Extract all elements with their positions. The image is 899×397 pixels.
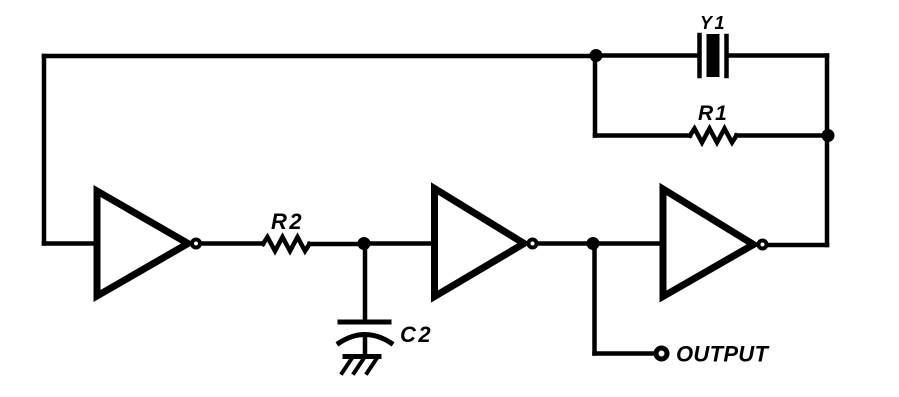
wire: left vertical rail — [42, 56, 47, 244]
wire: node C down to C2 — [363, 244, 368, 322]
wire: right vertical rail — [825, 56, 830, 246]
capacitor C2 top plate — [340, 320, 389, 325]
svg-text:R1: R1 — [698, 102, 729, 125]
output terminal — [656, 348, 667, 359]
inverter U3 output bubble — [759, 241, 767, 249]
wire: node D down to output — [592, 244, 597, 354]
wire: R1 left lead — [595, 133, 690, 138]
wire: top feedback from left rail to node A — [44, 54, 596, 59]
wire: C2 to ground — [363, 335, 368, 356]
wire: U2 output to node D — [538, 241, 593, 246]
resistor R1 — [690, 129, 737, 143]
wire: node C to U2 input — [364, 241, 433, 246]
svg-text:OUTPUT: OUTPUT — [676, 342, 769, 367]
svg-text:Y1: Y1 — [700, 13, 727, 33]
crystal Y1 — [700, 34, 727, 77]
svg-text:C2: C2 — [400, 322, 433, 347]
inverter U1 — [97, 191, 188, 296]
wire: crystal right plate to right rail — [728, 53, 827, 58]
node B junction dot — [822, 129, 835, 142]
wire: output horizontal — [595, 351, 655, 356]
wire: node A down to R1 level — [593, 56, 598, 136]
inverter U3 — [663, 189, 754, 297]
wire: U1 output to R2 — [202, 241, 263, 246]
wire: node D to U3 input — [593, 241, 662, 246]
node D junction dot — [587, 237, 600, 250]
wire: node A to crystal left plate — [596, 53, 698, 58]
capacitor C2 curved plate — [339, 335, 391, 344]
node C junction dot — [358, 237, 371, 250]
inverter U1 output bubble — [192, 240, 200, 248]
wire: R1 right lead to node B — [737, 133, 828, 138]
wire: R2 to node C — [310, 242, 365, 247]
ground — [342, 357, 379, 374]
inverter U2 output bubble — [529, 240, 537, 248]
wire: U3 output to right rail — [768, 243, 827, 248]
inverter U2 — [435, 189, 525, 297]
svg-text:R2: R2 — [271, 209, 304, 234]
wire: left rail to U1 input — [44, 241, 96, 246]
node A junction dot — [590, 49, 603, 62]
resistor R2 — [263, 237, 310, 251]
